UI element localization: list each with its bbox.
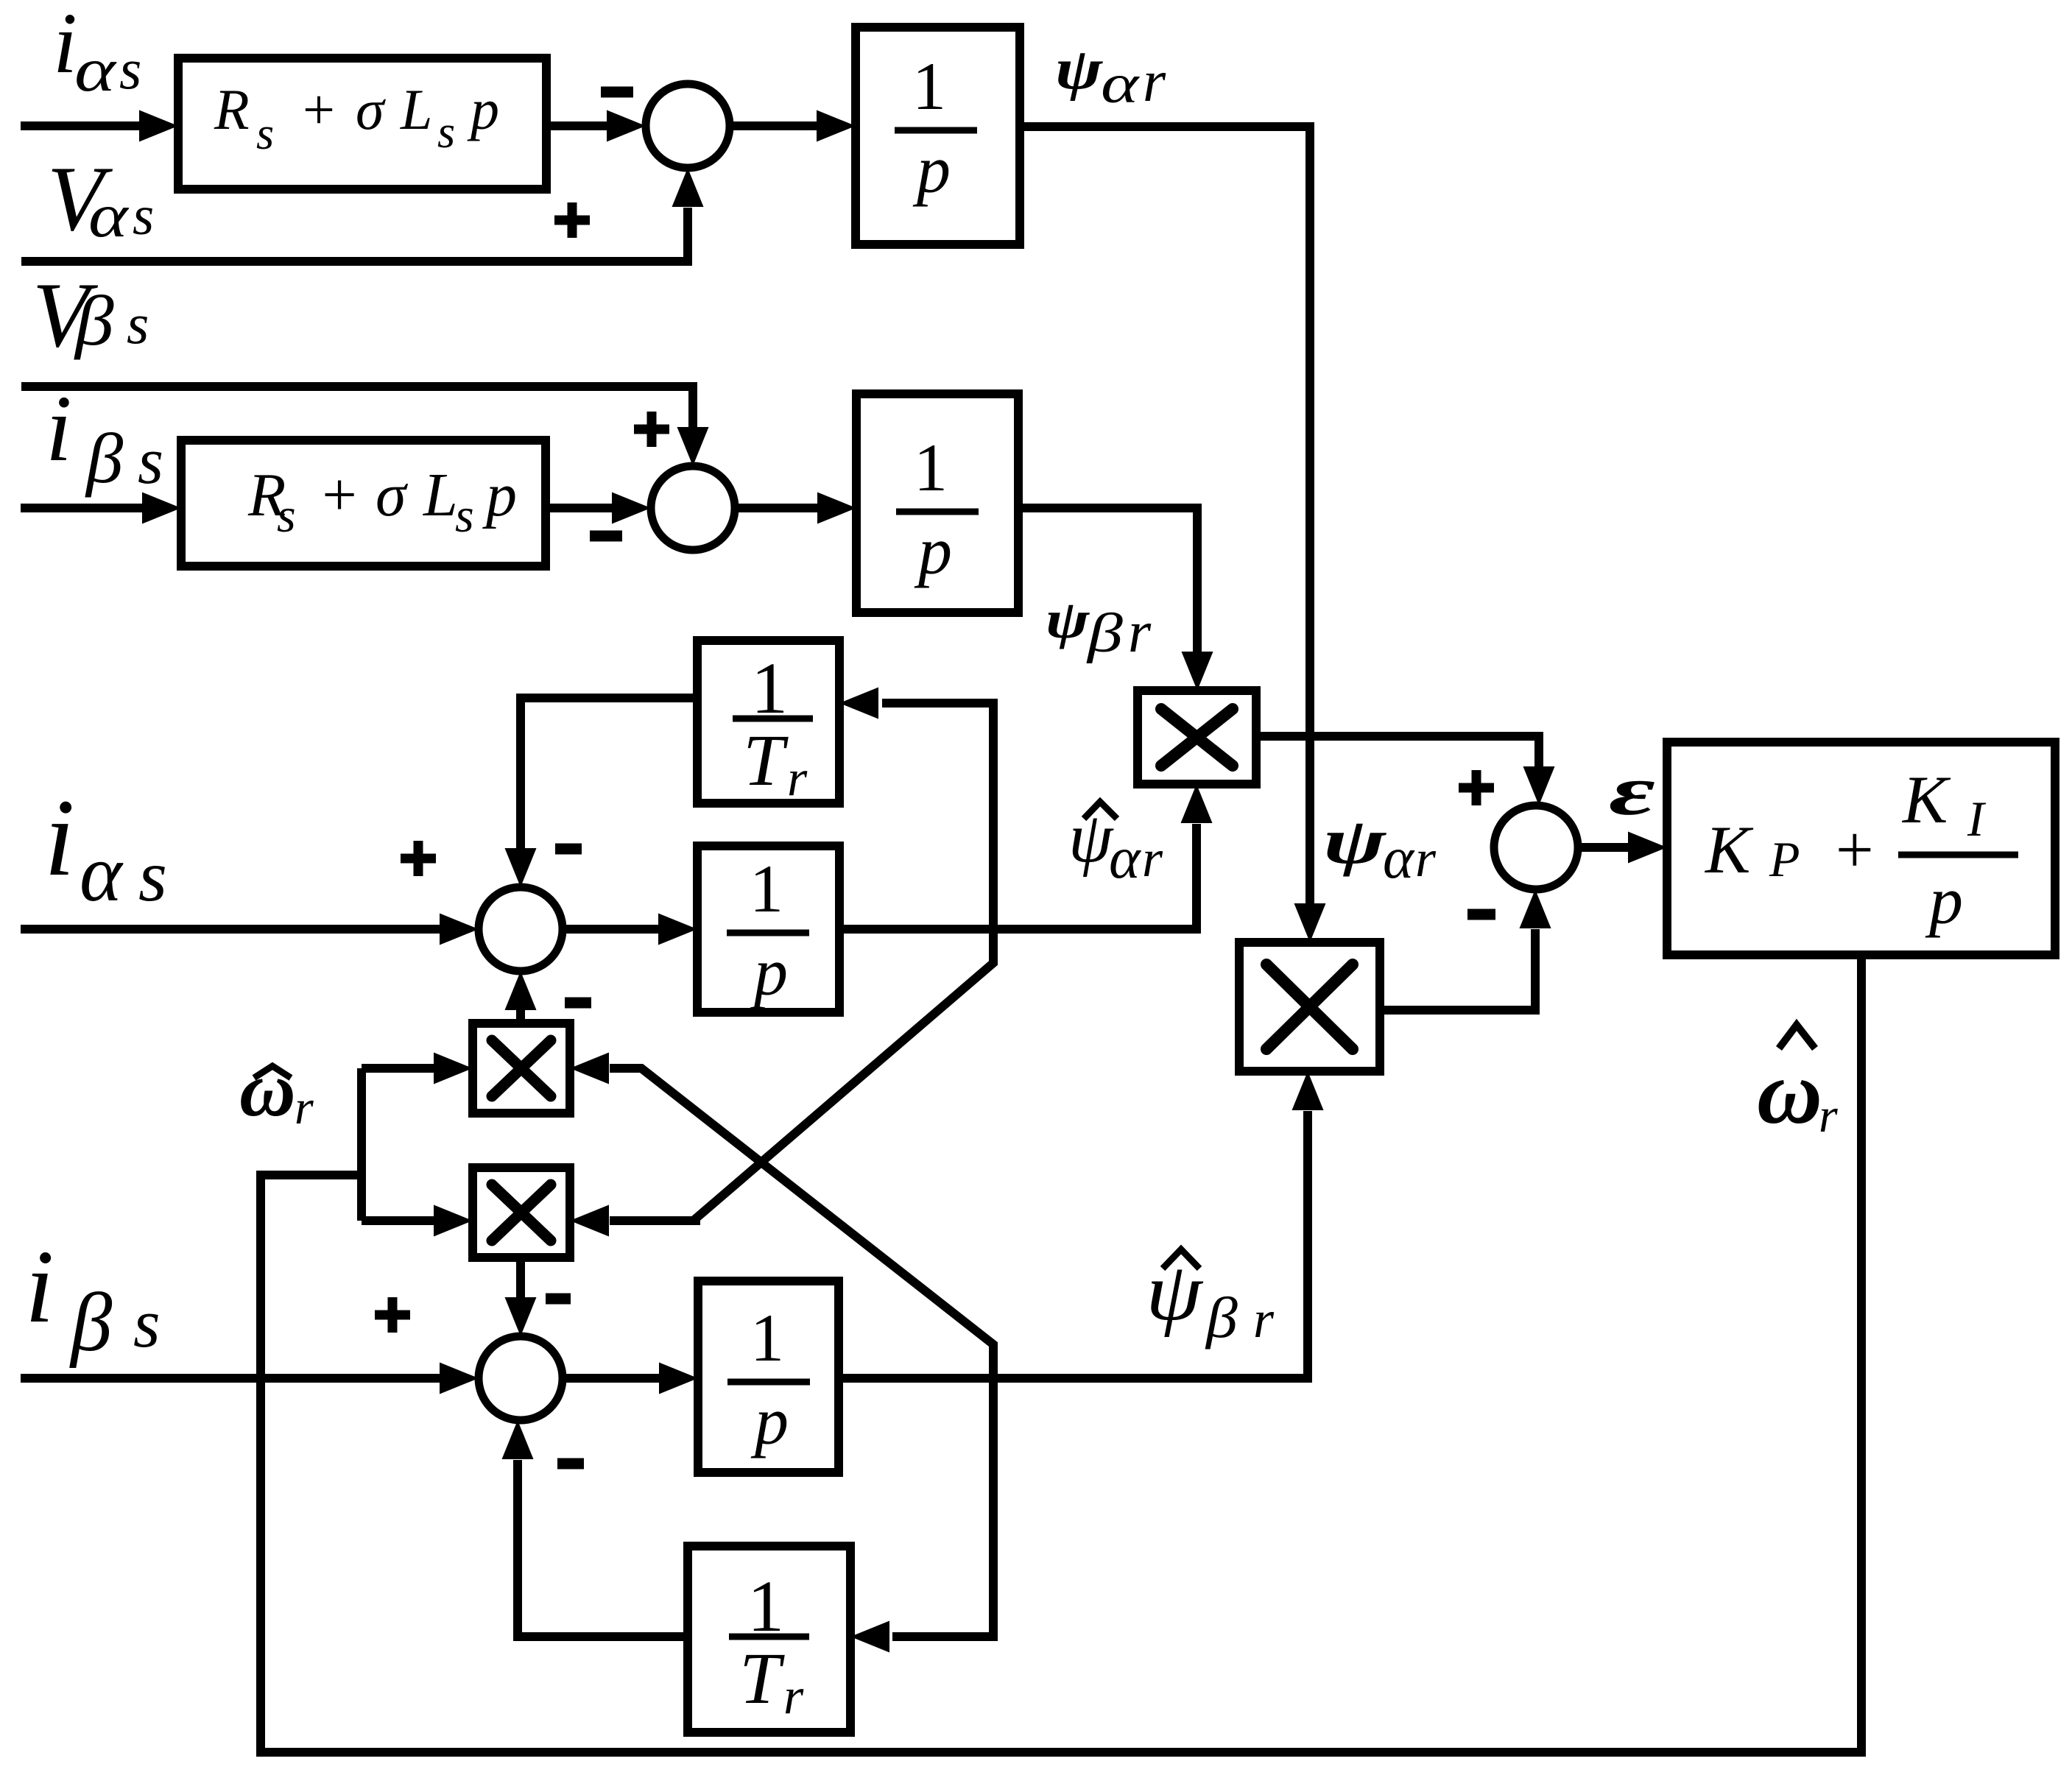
arrowhead diagonal A into M4 right	[570, 1205, 609, 1237]
minus sign at S1	[601, 87, 633, 98]
minus sign at S6 top	[546, 1294, 571, 1305]
block Tr2 1/Tr (lower)	[688, 1546, 850, 1732]
svg-text:σ: σ	[356, 77, 386, 141]
multiplier M1 X	[1161, 709, 1233, 766]
svg-text:s: s	[138, 425, 163, 498]
svg-text:p: p	[750, 934, 788, 1009]
arrowhead M1 out into epsilon summer top	[1523, 766, 1555, 805]
block PI text Kp + Ki/p	[1704, 762, 1987, 938]
block B4 text 1/p	[750, 1300, 789, 1458]
wire S4 to integrator B3	[563, 925, 663, 934]
wire epsilon to PI block	[1578, 843, 1633, 852]
summer S2	[651, 466, 735, 550]
arrowhead S4 into B3	[658, 914, 697, 945]
svg-text:α: α	[1109, 825, 1141, 891]
block A1 Rs+sigma*Ls*p (top)	[178, 58, 546, 189]
multiplier M3 box	[473, 1023, 570, 1113]
svg-text:β: β	[1086, 602, 1123, 664]
arrowhead epsilon into PI block	[1628, 832, 1667, 864]
wire omega_r to M3	[362, 1064, 439, 1073]
arrowhead i_alpha_s into A1	[139, 110, 178, 142]
block B2 fraction bar	[896, 509, 979, 515]
wire M3 output up into S4 bottom (-)	[516, 1010, 525, 1023]
wire i_alpha_s input (adaptive row)	[21, 925, 444, 934]
svg-text:+: +	[299, 77, 338, 141]
svg-text:i: i	[46, 376, 72, 481]
minus sign at S4 top	[555, 844, 582, 855]
svg-text:r: r	[1128, 600, 1152, 665]
svg-text:p: p	[467, 77, 499, 141]
svg-text:s: s	[133, 186, 154, 247]
svg-text:p: p	[482, 461, 517, 529]
block B2 text 1/p	[914, 430, 952, 588]
block Tr2 text 1/Tr	[739, 1565, 785, 1719]
block PI fraction bar	[1898, 852, 2018, 858]
block B3 1/p (adaptive alpha)	[697, 846, 839, 1012]
plus sign at S4	[401, 841, 436, 876]
svg-text:α: α	[1383, 826, 1415, 891]
wire B3 output to M1 bottom (psi_hat_alpha_r)	[839, 824, 1197, 929]
svg-text:ψ: ψ	[1068, 798, 1114, 877]
wire junction to Tr1 input	[882, 703, 993, 929]
wire junction to Tr2 input	[892, 1378, 993, 1637]
arrowhead B4 riser into M2 bottom	[1292, 1071, 1324, 1110]
block Tr1 1/Tr (upper)	[697, 641, 839, 803]
arrowhead V_beta_s into S2 top	[677, 427, 709, 466]
svg-text:ψ: ψ	[1323, 805, 1386, 877]
svg-text:s: s	[127, 292, 149, 356]
svg-text:ψ: ψ	[1046, 590, 1090, 650]
svg-text:β: β	[1205, 1286, 1238, 1350]
svg-text:K: K	[1901, 762, 1951, 837]
svg-text:R: R	[214, 77, 250, 141]
block B1 text 1/p	[912, 49, 951, 207]
wire omega_r split riser	[357, 1068, 366, 1221]
block Tr1 fraction bar	[733, 716, 813, 722]
block B4 fraction bar	[727, 1379, 810, 1386]
wire M2 output to epsilon summer (-)	[1380, 929, 1535, 1010]
wire 1/Tr1 output loop into S4 top (-)	[521, 698, 697, 853]
arrowhead M3 out into S4 bottom	[505, 971, 537, 1010]
arrowhead M4 out into S6 top	[505, 1297, 537, 1336]
wire M4 output down into S6 top (-)	[516, 1257, 525, 1299]
svg-text:s: s	[277, 489, 296, 543]
svg-text:s: s	[455, 489, 474, 543]
svg-text:T: T	[739, 1637, 785, 1719]
svg-text:i: i	[44, 777, 75, 899]
plus sign at epsilon summer	[1459, 770, 1494, 805]
svg-text:r: r	[295, 1081, 314, 1135]
svg-text:β: β	[85, 420, 123, 498]
wire i_beta_s input (adaptive row)	[21, 1374, 444, 1383]
svg-text:s: s	[437, 107, 455, 158]
arrowhead psi_beta_r into M1 top	[1182, 652, 1213, 691]
svg-text:r: r	[1253, 1290, 1275, 1349]
minus sign at S4 bottom	[565, 998, 591, 1009]
arrowhead i_beta_s into A2	[142, 493, 181, 524]
svg-text:ψ: ψ	[1146, 1246, 1203, 1338]
wire M1 output to epsilon summer (+)	[1256, 736, 1539, 772]
arrowhead A2 into S2	[612, 493, 651, 524]
svg-text:ω: ω	[1757, 1042, 1822, 1143]
svg-text:I: I	[1967, 791, 1987, 847]
arrowhead i_alpha_s into S4	[440, 914, 479, 945]
wire omega_r to M4	[362, 1216, 439, 1225]
svg-text:i: i	[25, 1228, 54, 1344]
svg-text:r: r	[1415, 829, 1437, 888]
svg-text:p: p	[912, 132, 951, 207]
wire psi_alpha_r from B1 down to multiplier M2	[1020, 127, 1310, 909]
hat of omega_hat_r right	[1779, 1025, 1815, 1048]
svg-text:i: i	[53, 0, 77, 91]
arrowhead omega_r into M3 left	[434, 1053, 473, 1084]
svg-text:p: p	[1925, 863, 1963, 938]
block B3 fraction bar	[727, 930, 809, 936]
summer S4	[479, 887, 563, 971]
svg-text:r: r	[1143, 49, 1166, 114]
svg-text:α: α	[1101, 53, 1141, 115]
arrowhead B3 riser into M1 bottom	[1181, 784, 1213, 823]
block B4 1/p (adaptive beta)	[698, 1281, 839, 1472]
wire S6 to integrator B4	[563, 1374, 663, 1383]
arrowhead S1 into B1	[817, 110, 856, 142]
arrowhead Tr1 loop into S4 top	[505, 848, 537, 887]
svg-text:+: +	[318, 461, 360, 529]
svg-text:r: r	[1819, 1089, 1838, 1143]
arrowhead diagonal B into M3 right	[570, 1053, 609, 1084]
wire A2 to summer S2	[546, 504, 617, 512]
wire B4 output to M2 bottom (psi_hat_beta_r)	[839, 1111, 1308, 1378]
block B3 text 1/p	[750, 851, 788, 1009]
wire S1 to integrator B1	[730, 121, 822, 130]
block B1 fraction bar	[895, 127, 977, 134]
arrowhead omega_r into M4 left	[434, 1205, 473, 1237]
arrowhead psi_alpha_r into M2 top	[1294, 903, 1326, 942]
wire S2 to integrator B2	[735, 504, 822, 512]
svg-text:r: r	[783, 1668, 804, 1725]
svg-text:K: K	[1704, 812, 1754, 887]
minus sign at S6 bottom	[557, 1458, 584, 1470]
summer S6	[479, 1336, 563, 1420]
wire diagonal A: psi_hat_alpha_r to M4 right input	[610, 929, 993, 1221]
arrowhead Tr2 loop into S6 bottom	[502, 1420, 534, 1459]
svg-text:p: p	[750, 1383, 789, 1458]
svg-text:s: s	[138, 835, 167, 917]
wire diagonal B: psi_hat_beta_r to M3 right input	[610, 1068, 993, 1378]
minus sign at epsilon summer	[1467, 909, 1495, 920]
plus sign at S6	[375, 1297, 410, 1333]
multiplier M3 X	[492, 1040, 551, 1096]
svg-text:1: 1	[750, 851, 783, 926]
svg-text:s: s	[133, 1285, 161, 1362]
arrowhead junction into Tr1 right	[839, 688, 878, 719]
block B1 1/p (top)	[856, 27, 1020, 244]
svg-text:L: L	[400, 77, 432, 141]
arrowhead junction into Tr2 right	[850, 1621, 889, 1653]
block A2 text Rs + sigma Ls p	[247, 461, 517, 543]
wire i_alpha_s input (top row)	[21, 121, 144, 130]
summer S1	[646, 84, 730, 168]
svg-text:+: +	[1831, 812, 1877, 887]
block Tr1 text 1/Tr	[743, 647, 789, 801]
wire omega_r feedback: PI out, bottom bus, left riser	[261, 955, 1861, 1752]
arrowhead V_alpha_s into S1 bottom	[672, 168, 704, 207]
hat of omega_hat_r left	[254, 1066, 291, 1078]
multiplier M1 box	[1138, 691, 1256, 784]
summer S_epsilon	[1494, 805, 1578, 889]
wire i_beta_s input (second row)	[21, 504, 147, 512]
svg-text:α: α	[88, 181, 129, 250]
svg-text:r: r	[1142, 829, 1163, 888]
arrowhead M2 out into epsilon summer bottom	[1520, 889, 1551, 928]
svg-text:σ: σ	[376, 461, 409, 529]
svg-text:ε: ε	[1609, 752, 1655, 830]
svg-text:s: s	[119, 37, 141, 101]
multiplier M2 box	[1239, 942, 1380, 1071]
svg-text:α: α	[74, 35, 118, 105]
svg-text:r: r	[787, 750, 808, 807]
arrowhead S2 into B2	[817, 493, 856, 524]
svg-text:1: 1	[912, 49, 946, 124]
svg-text:s: s	[256, 109, 274, 159]
arrowhead i_beta_s into S6	[440, 1363, 479, 1394]
wire V_alpha_s input to S1 (+)	[21, 208, 688, 261]
minus sign at S2	[590, 531, 622, 542]
wire Tr2 output loop into S6 bottom (-)	[518, 1460, 688, 1637]
svg-text:P: P	[1769, 831, 1800, 887]
block A2 Rs+sigma*Ls*p (second)	[181, 440, 546, 566]
multiplier M4 X	[492, 1185, 551, 1241]
plus sign at S2	[634, 412, 669, 447]
svg-text:ω: ω	[239, 1046, 296, 1132]
wire A1 to summer S1	[546, 121, 611, 130]
svg-text:α: α	[80, 828, 124, 918]
svg-text:1: 1	[914, 430, 948, 505]
wire psi_beta_r from B2 down to multiplier M1	[1018, 508, 1197, 657]
hat of psi_hat_beta_r	[1163, 1249, 1199, 1269]
svg-text:1: 1	[750, 1300, 784, 1375]
svg-text:p: p	[914, 513, 952, 588]
plus sign at S1	[554, 202, 590, 238]
svg-text:β: β	[69, 1277, 113, 1369]
block PI Kp+Ki/p	[1667, 742, 2055, 955]
svg-text:T: T	[743, 719, 789, 801]
svg-text:β: β	[74, 281, 114, 360]
svg-text:L: L	[423, 461, 458, 529]
multiplier M4 box	[473, 1168, 570, 1257]
arrowhead A1 into S1	[607, 110, 646, 142]
wire V_beta_s input to S2 (+)	[21, 387, 693, 432]
block Tr2 fraction bar	[729, 1634, 809, 1640]
block B2 1/p (second)	[856, 394, 1018, 613]
svg-text:ψ: ψ	[1055, 37, 1104, 102]
hat of psi_hat_alpha_r	[1084, 802, 1117, 819]
arrowhead S6 into B4	[659, 1363, 698, 1394]
multiplier M2 X	[1266, 964, 1353, 1049]
